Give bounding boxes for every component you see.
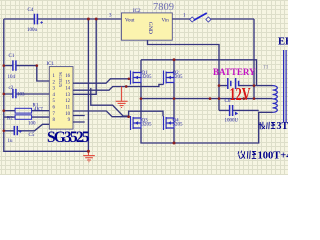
svg-text:Vout: Vout <box>125 19 135 24</box>
svg-text:3205: 3205 <box>173 123 184 128</box>
svg-text:16: 16 <box>65 74 70 79</box>
svg-text:104: 104 <box>8 75 16 80</box>
svg-text:1000U: 1000U <box>225 119 239 124</box>
svg-text:13: 13 <box>65 93 70 98</box>
svg-text:C1: C1 <box>9 54 15 59</box>
svg-text:IC2: IC2 <box>133 9 141 14</box>
svg-text:7809: 7809 <box>153 2 174 13</box>
svg-text:15: 15 <box>65 80 70 85</box>
svg-text:11: 11 <box>65 106 70 111</box>
svg-text:3205: 3205 <box>142 123 153 128</box>
svg-text:3205: 3205 <box>142 75 153 80</box>
svg-text:1u: 1u <box>8 139 14 144</box>
svg-text:12: 12 <box>65 99 70 104</box>
svg-text:SG3525: SG3525 <box>58 72 63 88</box>
svg-text:14: 14 <box>65 87 70 92</box>
svg-text:100T+4: 100T+4 <box>258 150 289 161</box>
svg-text:100u: 100u <box>27 28 38 33</box>
svg-text:C4: C4 <box>28 8 34 13</box>
svg-text:T1: T1 <box>263 65 269 71</box>
svg-text:3205: 3205 <box>173 75 184 80</box>
svg-text:BATTERY: BATTERY <box>213 67 256 77</box>
svg-text:4K7: 4K7 <box>34 108 43 113</box>
svg-text:IC1: IC1 <box>47 62 55 67</box>
svg-text:C5: C5 <box>29 133 35 138</box>
svg-text:3T: 3T <box>277 121 289 132</box>
svg-text:12V: 12V <box>230 84 251 104</box>
svg-text:EE: EE <box>278 37 288 48</box>
svg-text:103: 103 <box>17 93 25 98</box>
svg-text:c2: c2 <box>9 86 14 91</box>
svg-text:GND: GND <box>147 22 153 34</box>
svg-text:10: 10 <box>65 112 70 117</box>
svg-text:R2: R2 <box>7 117 13 122</box>
svg-text:SG3525: SG3525 <box>47 129 90 146</box>
svg-text:100: 100 <box>28 122 36 127</box>
svg-text:Vin: Vin <box>162 19 170 24</box>
